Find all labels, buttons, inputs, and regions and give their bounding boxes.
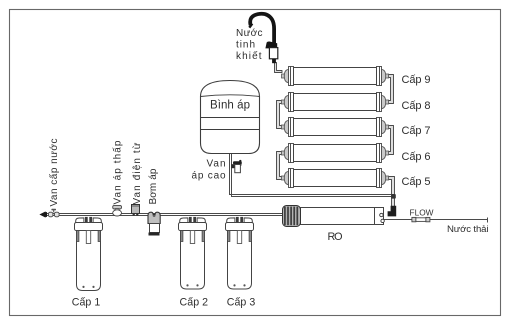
svg-text:Bình áp: Bình áp bbox=[210, 100, 250, 112]
wire: waste water line bbox=[384, 218, 488, 223]
label: Nuoc tinh khiet bbox=[236, 28, 263, 62]
svg-text:Cấp 9: Cấp 9 bbox=[402, 74, 431, 86]
svg-text:Van: Van bbox=[207, 159, 226, 170]
svg-text:Cấp 1: Cấp 1 bbox=[72, 296, 101, 308]
svg-text:Cấp 8: Cấp 8 bbox=[402, 100, 431, 112]
inline filter cartridge Cấp 6 bbox=[282, 144, 389, 163]
svg-text:Cấp 6: Cấp 6 bbox=[402, 151, 431, 163]
filter housing Cấp 1 bbox=[75, 217, 103, 291]
elbow fitting at RO outlet bbox=[388, 206, 397, 217]
RO membrane housing bbox=[283, 206, 385, 227]
filter housing Cấp 2 bbox=[179, 217, 207, 289]
inline filter cartridge Cấp 9 bbox=[282, 67, 389, 86]
valve: Van ap cao (high pressure valve) bbox=[231, 160, 242, 173]
svg-text:Van áp thấp: Van áp thấp bbox=[111, 140, 123, 204]
wire: riser from RO elbow up to Cap 5 outlet bbox=[388, 177, 394, 208]
faucet (pure water tap) bbox=[249, 14, 277, 63]
pressure tank Binh ap bbox=[201, 81, 260, 154]
valve: Van dien tu (solenoid) bbox=[132, 205, 140, 216]
wire: connector Cap 8 left to Cap 7 left bbox=[277, 101, 282, 129]
tee junction on permeate line bbox=[391, 194, 396, 199]
wire: tank drop pipe and permeate line to riser bbox=[230, 153, 395, 197]
flow restrictor bbox=[412, 217, 430, 221]
svg-text:FLOW: FLOW bbox=[410, 208, 434, 218]
water inlet arrow bbox=[39, 211, 47, 217]
wire: connector Cap 9 right to Cap 8 right bbox=[388, 75, 393, 104]
wire: main feed pipe bbox=[43, 214, 283, 216]
svg-text:Cấp 7: Cấp 7 bbox=[402, 125, 431, 137]
inline filter cartridge Cấp 8 bbox=[282, 93, 389, 112]
wire: connector Cap 7 right to Cap 6 right bbox=[388, 126, 393, 155]
svg-text:Cấp 5: Cấp 5 bbox=[402, 176, 431, 188]
wire: faucet supply tube from Cap 9 left bbox=[275, 63, 283, 73]
svg-text:Cấp 3: Cấp 3 bbox=[227, 296, 256, 308]
svg-text:Nước: Nước bbox=[236, 28, 263, 39]
svg-text:áp cao: áp cao bbox=[192, 170, 226, 181]
svg-text:Nước thải: Nước thải bbox=[447, 224, 489, 235]
inline filter cartridge Cấp 5 bbox=[282, 169, 389, 188]
valve: Van ap thap (low pressure switch) bbox=[113, 205, 122, 216]
svg-text:Bơm áp: Bơm áp bbox=[148, 168, 159, 204]
pump: Bom ap bbox=[148, 212, 160, 235]
svg-text:Van cấp nước: Van cấp nước bbox=[48, 139, 60, 207]
svg-text:khiết: khiết bbox=[236, 50, 262, 62]
svg-text:RO: RO bbox=[328, 231, 343, 243]
svg-text:tinh: tinh bbox=[236, 39, 255, 50]
wire: connector Cap 6 left to Cap 5 left bbox=[277, 152, 282, 180]
inline filter cartridge Cấp 7 bbox=[282, 118, 389, 137]
valve: Van cap nuoc (feed valve) bbox=[48, 209, 59, 217]
filter housing Cấp 3 bbox=[226, 217, 254, 289]
svg-text:Cấp 2: Cấp 2 bbox=[180, 296, 209, 308]
svg-text:Van điện từ: Van điện từ bbox=[132, 142, 143, 204]
